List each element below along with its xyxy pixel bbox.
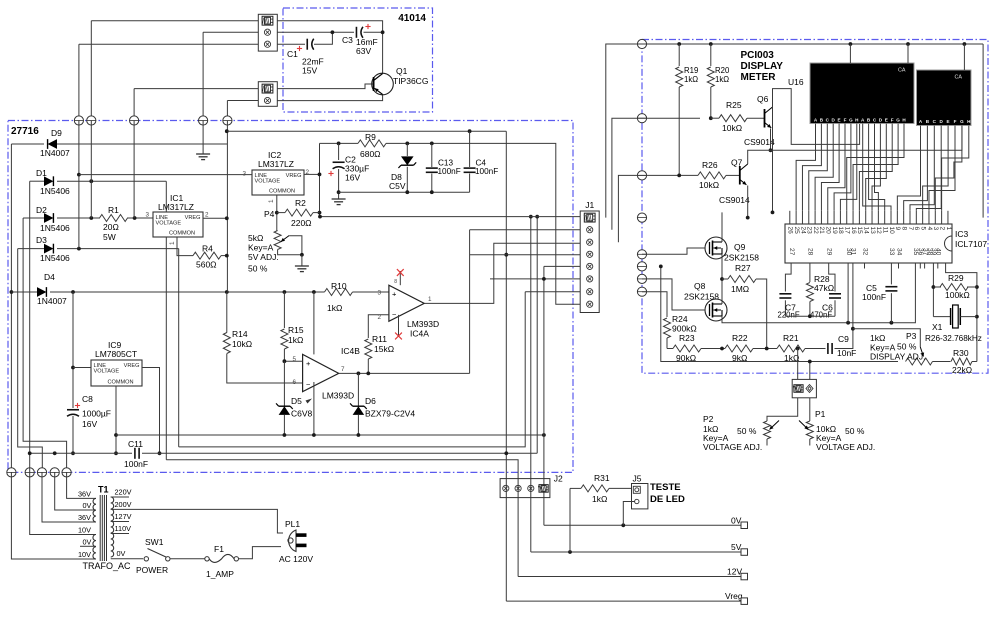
- svg-text:R11: R11: [372, 334, 387, 344]
- resistor R9 680ohm: [358, 140, 386, 147]
- svg-text:41014: 41014: [398, 13, 426, 24]
- svg-text:R20: R20: [715, 66, 730, 75]
- wire transformer tap 36V: [42, 472, 96, 522]
- display CA supply wires: [849, 44, 851, 63]
- wire J1 pin7 row: [525, 291, 580, 293]
- svg-text:50 %: 50 %: [737, 426, 757, 436]
- capacitor C11 100nF: [134, 448, 136, 459]
- zener D6 BZX79-C2V4: [357, 373, 359, 406]
- wire main column x=226.8 (D9/IC1out/R4/R14): [226, 121, 228, 292]
- wire Q8 gate: [642, 279, 705, 310]
- wire display2 segment H to IC3 pin 2: [942, 126, 969, 211]
- wire J1 pin1 row (5V reg output): [320, 216, 581, 218]
- svg-text:4: 4: [926, 227, 933, 231]
- svg-text:1: 1: [428, 296, 432, 303]
- svg-text:15V: 15V: [302, 66, 317, 76]
- svg-text:X1: X1: [932, 322, 943, 332]
- svg-text:8: 8: [900, 227, 907, 231]
- wire D3 output riser: [178, 249, 180, 447]
- wire D9 row: [11, 143, 44, 145]
- svg-text:D2: D2: [36, 205, 47, 215]
- svg-text:R23: R23: [679, 333, 695, 343]
- resistor R31 1k: [570, 487, 581, 489]
- svg-text:100nF: 100nF: [124, 459, 148, 469]
- capacitor C7 220nF: [779, 293, 791, 295]
- svg-text:−: −: [392, 310, 397, 319]
- svg-text:47kΩ: 47kΩ: [814, 283, 834, 293]
- svg-text:F1: F1: [214, 544, 224, 554]
- svg-text:27: 27: [788, 248, 795, 256]
- svg-text:C11: C11: [128, 439, 143, 449]
- svg-text:1kΩ: 1kΩ: [684, 75, 698, 84]
- svg-text:DE LED: DE LED: [650, 494, 685, 505]
- resistor R30 22k: [951, 358, 972, 365]
- svg-text:5V ADJ.: 5V ADJ.: [248, 252, 279, 262]
- wire D4 row / R10 row: [11, 291, 37, 293]
- svg-text:VREG: VREG: [185, 215, 201, 221]
- wire Q9 drain up: [721, 212, 723, 237]
- wire primary 0V to switch: [111, 558, 144, 560]
- divider row y=348.5 R23 R22 R21 C9: [667, 348, 673, 350]
- svg-text:1MΩ: 1MΩ: [731, 284, 749, 294]
- wire P2 connector riser: [797, 349, 799, 380]
- wire J1 pin6 row: [490, 278, 580, 280]
- svg-text:PCI003: PCI003: [741, 50, 775, 61]
- wire Vreg(IC1) top rail y=131: [227, 130, 506, 132]
- capacitor C4 100nF: [469, 131, 471, 167]
- wire Q7 base row: [642, 174, 698, 176]
- svg-text:200V: 200V: [115, 500, 132, 509]
- svg-text:D5: D5: [291, 396, 302, 406]
- wire display1 segment C to IC3 pin 23: [809, 124, 828, 211]
- svg-text:VOLTAGE: VOLTAGE: [156, 221, 182, 227]
- svg-text:VOLTAGE: VOLTAGE: [255, 179, 281, 185]
- svg-text:17: 17: [844, 227, 851, 235]
- svg-text:Q9: Q9: [734, 242, 746, 252]
- svg-text:36V: 36V: [78, 513, 91, 522]
- svg-text:7: 7: [907, 227, 914, 231]
- potentiometer P4 5k 5V ADJ: [274, 231, 281, 250]
- potentiometer P1 10k VOLTAGE ADJ: [806, 421, 813, 439]
- svg-text:2SK2158: 2SK2158: [724, 253, 759, 263]
- svg-text:G: G: [849, 118, 853, 123]
- capacitor C8 1000uF: [67, 409, 79, 411]
- svg-text:POWER: POWER: [136, 565, 168, 575]
- svg-text:20Ω: 20Ω: [103, 222, 119, 232]
- wire primary 200V to plug: [111, 509, 283, 533]
- svg-text:1: 1: [169, 241, 176, 245]
- resistor R20 1k: [710, 44, 712, 66]
- svg-text:G: G: [960, 119, 964, 124]
- wire Q7 base row riser: [618, 175, 642, 242]
- svg-text:220Ω: 220Ω: [291, 218, 312, 228]
- svg-text:22: 22: [812, 227, 819, 235]
- svg-text:100nF: 100nF: [862, 292, 886, 302]
- svg-text:COMMON: COMMON: [169, 230, 195, 236]
- svg-text:5kΩ: 5kΩ: [248, 233, 263, 243]
- svg-text:D6: D6: [365, 396, 376, 406]
- switch SW1 POWER: [144, 557, 148, 561]
- ground under C2: [332, 198, 346, 200]
- svg-text:P1: P1: [815, 409, 826, 419]
- svg-text:+: +: [306, 359, 311, 368]
- wire IC4B + input: [284, 360, 302, 362]
- wire Vreg column x=506.3: [505, 131, 507, 601]
- node circles on PCI003 left edge: [637, 39, 646, 48]
- svg-text:R27: R27: [735, 263, 751, 273]
- wire pin30 drop: [847, 263, 849, 323]
- wire display1 segment D to IC3 pin 22: [815, 124, 833, 211]
- svg-text:16: 16: [850, 227, 857, 235]
- svg-text:15: 15: [856, 227, 863, 235]
- svg-text:BZX79-C2V4: BZX79-C2V4: [365, 409, 415, 419]
- svg-text:P4: P4: [264, 209, 275, 219]
- wire Q1 emitter net: [277, 95, 382, 101]
- svg-text:COMMON: COMMON: [107, 379, 133, 385]
- svg-text:F: F: [844, 118, 847, 123]
- svg-text:3: 3: [145, 212, 149, 219]
- svg-text:16V: 16V: [82, 419, 97, 429]
- connector JP pots: [792, 379, 816, 397]
- wire R9 row y=143.4: [320, 142, 359, 144]
- connector XC2: [258, 82, 277, 107]
- svg-text:0V: 0V: [83, 501, 92, 510]
- svg-text:1kΩ: 1kΩ: [288, 335, 303, 345]
- svg-text:1N5406: 1N5406: [40, 253, 70, 263]
- svg-text:5V: 5V: [731, 542, 742, 552]
- diode D1 1N5406: [44, 176, 53, 186]
- wire display1 segment E to IC3 pin 21: [821, 124, 839, 211]
- svg-text:Key=A: Key=A: [248, 243, 274, 253]
- wire P2 top: [767, 398, 798, 421]
- svg-text:29: 29: [826, 248, 833, 256]
- wire Q7 collector route: [748, 126, 962, 165]
- capacitor C6 470nF: [829, 293, 841, 295]
- svg-text:20: 20: [825, 227, 832, 235]
- wire Q8 source row y=322.7: [722, 263, 915, 323]
- wire J5 pin2 to 0V: [623, 502, 634, 526]
- svg-text:25: 25: [793, 227, 800, 235]
- wire pin27 to C7: [785, 263, 791, 292]
- svg-text:18: 18: [837, 227, 844, 235]
- wire R31 riser to 5V: [569, 488, 571, 552]
- svg-text:3: 3: [932, 227, 939, 231]
- plug PL1 AC 120V: [289, 530, 296, 552]
- svg-text:IC3: IC3: [955, 229, 969, 239]
- svg-text:R26-32.768kHz: R26-32.768kHz: [925, 334, 982, 343]
- svg-text:2: 2: [306, 169, 310, 176]
- module box 41014: [283, 8, 433, 112]
- svg-text:VOLTAGE ADJ.: VOLTAGE ADJ.: [816, 442, 875, 452]
- svg-text:16V: 16V: [345, 173, 360, 183]
- svg-text:50 %: 50 %: [897, 342, 917, 352]
- diode D9 1N4007: [48, 139, 57, 149]
- svg-text:R24: R24: [672, 314, 688, 324]
- svg-text:34: 34: [895, 248, 902, 256]
- wire display2 segment D to IC3 pin 6: [916, 126, 941, 211]
- op-amp IC4B LM393D: [303, 354, 339, 391]
- wire display1 segment G to IC3 pin 19: [834, 124, 851, 211]
- wire Q6 emitter: [770, 129, 772, 151]
- wire 36V row y=446.9 to J1 pin7: [179, 292, 526, 447]
- fuse F1 1_AMP: [205, 557, 209, 561]
- node circles on box 27716 bottom edge: [7, 468, 16, 477]
- wire pin35 P3 row / bottom analog common: [661, 266, 898, 361]
- wire IC4B output row: [339, 372, 470, 374]
- wire 0V bus y=435: [116, 434, 544, 436]
- svg-text:2: 2: [938, 227, 945, 231]
- svg-text:R15: R15: [288, 325, 304, 335]
- svg-text:D3: D3: [36, 235, 47, 245]
- svg-text:24: 24: [799, 227, 806, 235]
- svg-text:TRAFO_AC: TRAFO_AC: [83, 561, 132, 571]
- svg-text:15kΩ: 15kΩ: [374, 344, 394, 354]
- svg-text:R19: R19: [684, 66, 698, 75]
- wire fuse to plug: [239, 547, 282, 559]
- svg-text:1N4007: 1N4007: [37, 296, 67, 306]
- wire transformer stub 0V: [80, 545, 96, 547]
- svg-text:100kΩ: 100kΩ: [945, 290, 970, 300]
- svg-text:36V: 36V: [78, 490, 91, 499]
- wire: [79, 43, 258, 45]
- svg-text:2SK2158: 2SK2158: [684, 292, 719, 302]
- svg-text:+: +: [392, 290, 397, 299]
- wire transformer tap 10V bottom: [11, 472, 96, 559]
- svg-text:63V: 63V: [356, 46, 371, 56]
- svg-text:DISPLAY ADJ.: DISPLAY ADJ.: [870, 352, 925, 362]
- wire 12V output line: [518, 576, 744, 578]
- wire display1 segment A to IC3 pin 25: [796, 124, 815, 211]
- wire x=91.3 riser: [90, 121, 92, 219]
- transistor Q7 CS9014: [739, 166, 741, 185]
- svg-text:10: 10: [888, 227, 895, 235]
- wire display2 segment F to IC3 pin 4: [929, 126, 955, 211]
- transistor Q6 CS9014: [764, 109, 766, 128]
- wire Q6 base row riser: [612, 118, 642, 230]
- svg-text:P2: P2: [703, 414, 714, 424]
- wire C1 net: [277, 43, 305, 45]
- wire: [227, 100, 258, 102]
- wire net to connector pins top-left: [91, 20, 258, 22]
- svg-text:C3: C3: [342, 35, 353, 45]
- svg-text:27716: 27716: [11, 126, 39, 137]
- wire display1 segment G2 to IC3 pin 16: [853, 124, 898, 211]
- module box PCI003: [642, 40, 988, 374]
- resistor R15 1k: [281, 329, 288, 349]
- node circles on box 27716 top edge: [74, 116, 83, 125]
- connector J1: [580, 211, 599, 313]
- wire primary 127V stub: [111, 521, 129, 523]
- wire: [134, 88, 258, 90]
- wire display1 segment E2 to IC3 pin 14: [866, 124, 887, 211]
- ground below P4: [295, 265, 309, 267]
- svg-text:13: 13: [869, 227, 876, 235]
- IC2 LM317LZ: [252, 170, 304, 195]
- resistor R24 900k: [642, 292, 667, 317]
- wire +V rail y=44: [606, 44, 983, 218]
- svg-text:2: 2: [205, 212, 209, 219]
- svg-text:LM317LZ: LM317LZ: [158, 202, 194, 212]
- svg-text:7: 7: [341, 366, 345, 373]
- wire 12V row y=459.7: [166, 460, 518, 577]
- svg-text:T1: T1: [98, 485, 109, 495]
- connector XC1: [258, 14, 277, 51]
- IC1 LM317LZ: [153, 212, 203, 237]
- svg-text:SW1: SW1: [145, 537, 164, 547]
- wire pin38 route to crystal right: [946, 263, 977, 362]
- svg-text:J1: J1: [585, 200, 594, 210]
- svg-text:12V: 12V: [727, 567, 742, 577]
- svg-text:5W: 5W: [103, 232, 116, 242]
- wire IC2 input row: [79, 174, 252, 176]
- resistor R10 1k: [325, 289, 353, 296]
- svg-text:470nF: 470nF: [810, 311, 832, 320]
- svg-text:680Ω: 680Ω: [360, 149, 381, 159]
- capacitor C5 100nF: [890, 263, 892, 284]
- svg-text:Q6: Q6: [757, 94, 769, 104]
- svg-text:R25: R25: [726, 100, 742, 110]
- svg-text:6: 6: [913, 227, 920, 231]
- svg-text:LM393D: LM393D: [322, 391, 354, 401]
- wire x=134.6 riser: [133, 121, 135, 219]
- wire D3 row: [18, 248, 44, 250]
- display U16 digit block 2: [917, 70, 972, 126]
- wire C3 net: [277, 31, 354, 33]
- svg-text:VOLTAGE ADJ.: VOLTAGE ADJ.: [703, 442, 762, 452]
- svg-text:R10: R10: [331, 281, 347, 291]
- svg-text:100nF: 100nF: [475, 167, 498, 176]
- wire x=73 column to IC9: [72, 292, 74, 408]
- svg-text:METER: METER: [741, 72, 777, 83]
- wire IC9 VREG to rail: [142, 368, 160, 454]
- svg-text:R1: R1: [108, 205, 119, 215]
- wire IC1 VREG to column: [203, 217, 227, 219]
- transistor Q1 TIP36CG: [372, 73, 394, 95]
- resistor R14 10k on column: [226, 292, 228, 333]
- wire display2 segment E to IC3 pin 5: [923, 126, 948, 211]
- diode D4 1N4007: [37, 287, 46, 297]
- svg-text:1N5406: 1N5406: [40, 186, 70, 196]
- svg-text:1000µF: 1000µF: [82, 409, 111, 419]
- wire Q1 collector net: [277, 21, 382, 73]
- svg-text:14: 14: [863, 227, 870, 235]
- svg-text:TIP36CG: TIP36CG: [393, 76, 428, 86]
- svg-text:VREG: VREG: [124, 363, 140, 369]
- svg-text:11: 11: [881, 227, 888, 234]
- svg-text:3: 3: [242, 171, 246, 178]
- wire display2 segment C to IC3 pin 7: [910, 126, 934, 211]
- wire display1 segment F to IC3 pin 20: [828, 124, 845, 211]
- resistor R28 47k: [809, 263, 811, 282]
- svg-text:R22: R22: [732, 333, 748, 343]
- wire display2 segment B to IC3 pin 8: [904, 126, 928, 211]
- wire IC9 LINE: [73, 367, 91, 369]
- connector J2: [500, 479, 550, 498]
- svg-text:31: 31: [850, 248, 857, 256]
- wire display2 segment A to IC3 pin 9: [897, 126, 920, 211]
- svg-text:8: 8: [394, 279, 397, 285]
- IC9 LM7805CT: [91, 360, 142, 386]
- svg-text:10nF: 10nF: [837, 348, 856, 358]
- wire D1 riser to rail: [29, 181, 31, 453]
- wire 5V riser x=530.8 to J2: [530, 217, 532, 552]
- resistor R25 10k: [711, 117, 719, 119]
- svg-text:C5V: C5V: [389, 181, 406, 191]
- svg-text:220V: 220V: [115, 488, 132, 497]
- resistor R4 560ohm: [193, 252, 221, 259]
- svg-text:−: −: [306, 380, 311, 389]
- wire P1 top: [809, 398, 811, 421]
- capacitor C3: [355, 27, 357, 38]
- svg-text:19: 19: [831, 227, 838, 235]
- wire J1 pin2 row from IC4B: [470, 229, 581, 231]
- wire primary 220V stub: [111, 496, 129, 498]
- svg-text:IC4B: IC4B: [341, 346, 360, 356]
- zener D8 C5V: [406, 143, 408, 156]
- wire 0V output line: [544, 524, 744, 526]
- svg-text:33: 33: [888, 248, 895, 256]
- wire D1 row: [30, 180, 44, 182]
- wire 5V output line: [531, 551, 744, 553]
- svg-text:10V: 10V: [78, 526, 91, 535]
- transistor Q8 2SK2158: [705, 299, 727, 321]
- svg-text:AC 120V: AC 120V: [279, 554, 313, 564]
- svg-text:F: F: [891, 118, 894, 123]
- capacitor C1: [306, 39, 308, 50]
- svg-text:50 %: 50 %: [845, 426, 865, 436]
- svg-text:21: 21: [818, 227, 825, 235]
- svg-text:220nF: 220nF: [778, 311, 800, 320]
- wire Q9 gate: [642, 248, 705, 254]
- wire R15 column: [283, 292, 285, 328]
- wire bottom rail y=453.3 with C11: [30, 452, 132, 454]
- wire display1 segment B2 to IC3 pin 11: [869, 124, 885, 211]
- svg-text:J2: J2: [554, 474, 563, 484]
- svg-text:1N4007: 1N4007: [40, 148, 70, 158]
- module box 27716: [8, 121, 573, 473]
- wire display2 segment G to IC3 pin 3: [935, 126, 962, 211]
- svg-text:LM317LZ: LM317LZ: [258, 159, 294, 169]
- resistor R26 10k: [698, 172, 726, 179]
- IC3 top pin stubs and numbers: [789, 211, 791, 224]
- op-amp IC4A LM393D: [389, 285, 424, 321]
- svg-text:110V: 110V: [115, 524, 132, 533]
- svg-text:32: 32: [861, 248, 868, 256]
- wire primary 110V stub: [111, 533, 129, 535]
- svg-text:23: 23: [806, 227, 813, 235]
- svg-text:J5: J5: [633, 474, 642, 484]
- svg-text:5: 5: [919, 227, 926, 231]
- svg-text:100nF: 100nF: [438, 167, 461, 176]
- svg-text:12: 12: [875, 227, 882, 235]
- svg-text:40: 40: [935, 248, 942, 256]
- svg-text:1kΩ: 1kΩ: [715, 75, 729, 84]
- svg-text:F: F: [954, 119, 957, 124]
- svg-text:1kΩ: 1kΩ: [327, 303, 342, 313]
- wire IC1 COMMON to R4: [177, 237, 193, 256]
- svg-text:0V: 0V: [731, 516, 742, 526]
- resistor R19 1k: [678, 44, 680, 66]
- capacitor C13 100nF: [431, 143, 433, 167]
- wire D3 left riser: [18, 249, 43, 473]
- svg-text:R29: R29: [948, 273, 964, 283]
- svg-text:9: 9: [894, 227, 901, 231]
- wire Q6 long vertical: [772, 107, 774, 212]
- wire P1 connector riser: [809, 362, 811, 380]
- svg-text:COMMON: COMMON: [269, 188, 295, 194]
- svg-text:1: 1: [945, 227, 952, 231]
- wire Q1 base net: [277, 84, 373, 89]
